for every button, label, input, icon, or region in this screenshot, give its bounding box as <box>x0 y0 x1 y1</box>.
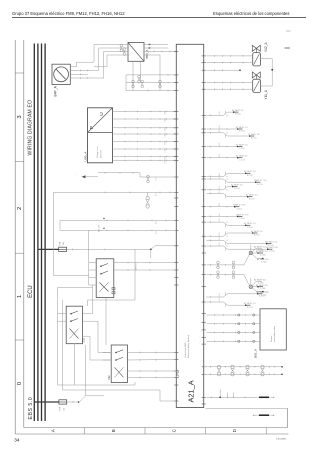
S32 contacts <box>115 352 117 354</box>
svg-text:B-TU4: B-TU4 <box>239 131 244 133</box>
valve feed wire ticks Y12 <box>214 55 216 57</box>
relay drop wires <box>105 298 107 346</box>
stub row y189.8 <box>210 189 212 191</box>
svg-text:AT SA/ST GU: AT SA/ST GU <box>257 291 269 294</box>
scale bar top right <box>285 47 291 49</box>
svg-text:3: 3 <box>17 115 23 118</box>
svg-text:Y11_A: Y11_A <box>264 89 268 99</box>
thick tap wire to fuse F28 <box>38 248 59 250</box>
relay terminal squares <box>112 292 115 294</box>
sensor unit B03_A box <box>260 309 286 350</box>
relay right pin wires <box>114 262 177 264</box>
stub row y222.1 <box>210 221 212 223</box>
stub row y129 <box>210 128 212 130</box>
switch S31 box <box>66 306 82 344</box>
cable screen bar 2 <box>259 414 269 416</box>
splice 1 fan-out <box>252 249 262 252</box>
ECU left edge pins <box>174 51 178 53</box>
splice 2 fan-out <box>252 282 262 286</box>
lower-left interconnect wires <box>58 384 136 386</box>
solenoid valve Y11_A body <box>253 79 261 92</box>
fuse F28 <box>59 247 67 251</box>
svg-text:Control unit, EBS: Control unit, EBS <box>184 342 187 358</box>
svg-text:ECU: ECU <box>28 285 34 298</box>
twisted pair connector 2 <box>232 261 235 264</box>
stub row y146.5 <box>210 146 212 148</box>
twisted pair connector 1 <box>217 261 220 264</box>
connector tick columns between U0B and ECU <box>124 111 126 113</box>
svg-text:Voltage conv.: Voltage conv. <box>96 146 99 158</box>
svg-text:B-TU4: B-TU4 <box>251 138 256 140</box>
stub row y157.7 <box>210 157 212 159</box>
gauge B4P_A needle <box>56 69 65 79</box>
stub row y236.2 <box>210 235 212 237</box>
switch S32 box <box>111 345 127 383</box>
frame left outer border <box>14 40 16 434</box>
splice node 2 (circle-X) <box>244 275 250 286</box>
U0B_A divider <box>88 132 113 134</box>
S31 left wires <box>58 313 67 315</box>
valve feed wires Y11 <box>207 82 253 84</box>
hourglass connectors below B50 <box>132 80 135 83</box>
drop from B50 wire <box>159 55 161 91</box>
bottom ruler separator 1 <box>84 428 86 435</box>
bottom wire row y397.3 <box>207 396 258 398</box>
svg-text:B-TU4: B-TU4 <box>247 307 252 309</box>
gauge B4P_A box <box>52 64 70 84</box>
B50 right pin wires <box>144 44 168 46</box>
stub row y297 <box>210 296 212 298</box>
U0B_A bottom arrow <box>82 175 86 178</box>
relay coil diagonal <box>100 283 109 292</box>
svg-text:2: 2 <box>17 207 23 210</box>
ruler tick y=161.5 <box>15 161 24 163</box>
svg-text:2-TU4: 2-TU4 <box>260 288 265 290</box>
svg-text:AT SA/ST GU: AT SA/ST GU <box>236 126 248 129</box>
S31 contacts <box>70 313 72 315</box>
stub above splice 2 <box>250 280 252 285</box>
stub row y216.5 <box>210 216 212 218</box>
svg-text:0.75: 0.75 <box>219 298 221 301</box>
svg-text:7/2B S:4: 7/2B S:4 <box>136 262 138 271</box>
ECU right edge pins <box>202 55 206 57</box>
relay box <box>96 259 114 298</box>
riser from y397 row <box>219 391 221 397</box>
ruler tick y=253.2 <box>15 252 24 254</box>
junction dots on F28 wire <box>72 249 74 251</box>
wire row y177 to ECU <box>140 176 176 178</box>
splice node 1 (circle-X) <box>244 255 250 265</box>
svg-text:Grupo 37 Esquema eléctrico FM9: Grupo 37 Esquema eléctrico FM9, FM12, FH… <box>12 11 125 16</box>
svg-text:0.75: 0.75 <box>219 293 221 296</box>
svg-text:C-VU4: C-VU4 <box>239 218 245 220</box>
stub row y179 <box>210 178 212 180</box>
svg-text:EBS 5.0: EBS 5.0 <box>28 397 34 420</box>
svg-text:(Electronic Brake System): (Electronic Brake System) <box>187 335 190 358</box>
frame left ruler inner line <box>23 40 25 428</box>
wires below B50 to ECU pins <box>132 61 134 90</box>
svg-text:B03_A: B03_A <box>254 349 258 358</box>
connector pair x147.6 y198-206.5 <box>146 196 149 199</box>
B03 feed wires <box>207 314 261 316</box>
vertical wire x135 with label <box>134 249 136 300</box>
bottom chain wires <box>204 366 281 368</box>
svg-text:SAME ST XUY: SAME ST XUY <box>236 213 249 216</box>
bottom ruler separator 2 <box>144 428 146 435</box>
gauge wire row y78 <box>77 77 104 79</box>
svg-text:AT SA/ST GU: AT SA/ST GU <box>256 284 268 287</box>
stub row y132.8 <box>210 132 212 134</box>
ECU A21_A box <box>176 44 203 407</box>
svg-text:0.75: 0.75 <box>219 190 221 193</box>
stub row y206.7 <box>210 206 212 208</box>
relay contacts <box>100 265 102 267</box>
B50 feed wires from left <box>94 44 120 46</box>
mid ticks on twisted pair rows <box>225 264 227 266</box>
wire under relay to S32 <box>53 274 88 276</box>
svg-text:Y12_A: Y12_A <box>264 42 268 52</box>
frame bottom ruler top line <box>24 427 288 429</box>
connector pair on riser x148 <box>147 175 150 178</box>
svg-text:Sensor,: Sensor, <box>271 335 273 342</box>
svg-text:BB 139: BB 139 <box>99 224 101 231</box>
wire row y220.5 <box>60 220 176 222</box>
frame top right tick <box>286 30 291 32</box>
twisted pair connector 3 <box>217 271 220 274</box>
header rule <box>12 17 306 19</box>
svg-text:C-TU4: C-TU4 <box>269 251 275 253</box>
solenoid valve Y12_A body <box>253 53 261 66</box>
S32 right wires to ECU <box>128 352 177 354</box>
sensor B50_A box <box>128 43 144 62</box>
svg-text:Esquemas eléctricos de los com: Esquemas eléctricos de los componentes <box>213 11 289 16</box>
svg-text:1.0SB: 1.0SB <box>165 141 167 145</box>
vertical riser from F48 run <box>85 345 87 396</box>
S31 right wires <box>83 313 93 315</box>
left drop wires to relay area <box>59 221 61 231</box>
svg-text:AT SA/ST GU: AT SA/ST GU <box>246 194 258 197</box>
bus wire 4 <box>44 44 46 422</box>
cable screen bar 1 <box>259 396 269 398</box>
svg-text:P: P <box>89 126 95 129</box>
gauge wire row y74.3 <box>77 73 88 75</box>
sensor B50_A diagonal <box>128 43 144 62</box>
bottom chain ticks <box>209 366 211 368</box>
valve feed wire ticks Y11 <box>214 82 216 84</box>
stub row y302 <box>210 301 212 303</box>
svg-text:AT SA/ST GU: AT SA/ST GU <box>244 222 256 225</box>
svg-text:0: 0 <box>17 382 23 385</box>
svg-text:0.75: 0.75 <box>156 221 158 224</box>
bus wire 3 <box>41 44 43 422</box>
svg-text:AT SA/ST GU: AT SA/ST GU <box>244 170 256 173</box>
svg-text:A21_A: A21_A <box>187 380 196 402</box>
valve feed wires Y12 <box>207 55 253 57</box>
wire from S31 bottom down <box>74 344 76 385</box>
svg-text:AT SA/ST GU: AT SA/ST GU <box>244 302 256 305</box>
thick tap wire to fuse F48 <box>34 401 59 403</box>
bottom long wire to frame corner <box>205 407 287 409</box>
bus wire 2 <box>37 44 39 422</box>
valve feed wire row y70.2 <box>207 69 241 71</box>
svg-text:combination valve: combination valve <box>273 325 276 342</box>
solenoid valve Y12_A bowtie <box>252 45 260 51</box>
svg-text:1.0SB: 1.0SB <box>165 159 167 163</box>
wire from F48 with connector <box>67 401 78 403</box>
svg-text:C-VU4: C-VU4 <box>236 208 242 210</box>
branch down from F28 wire <box>150 249 152 258</box>
svg-text:34: 34 <box>14 437 20 442</box>
svg-text:SAME ST TUV: SAME ST TUV <box>254 179 267 182</box>
svg-text:1.0SB: 1.0SB <box>165 148 167 152</box>
S32 left wires <box>103 352 112 354</box>
U0B right pin wires to ECU <box>113 111 177 113</box>
valve common return riser <box>261 58 273 60</box>
svg-text:AT SA/ST GU: AT SA/ST GU <box>251 230 263 233</box>
svg-text:U0B_A: U0B_A <box>83 151 87 162</box>
wire row y230.3 <box>60 229 176 231</box>
svg-text:S-VU4: S-VU4 <box>247 227 253 229</box>
frame right lower border <box>287 408 289 427</box>
svg-text:SAME ST TUV: SAME ST TUV <box>233 204 246 207</box>
svg-text:24V/12V: 24V/12V <box>101 150 103 158</box>
svg-text:B4P_A: B4P_A <box>54 85 58 96</box>
stub row y115.3 <box>210 115 212 117</box>
stub above splice 1 <box>250 247 252 252</box>
svg-text:WIRING DIAGRAM EO: WIRING DIAGRAM EO <box>27 100 33 156</box>
bottom wire row y415.2 <box>253 414 258 416</box>
svg-text:1: 1 <box>17 295 23 298</box>
gauge B4P_A dial circle <box>54 67 69 82</box>
S32 coil diagonal <box>115 367 124 377</box>
connector on F48 wire <box>78 401 80 403</box>
svg-text:2-TU4: 2-TU4 <box>261 261 266 263</box>
svg-text:B: B <box>111 429 116 432</box>
svg-text:S32: S32 <box>107 375 111 380</box>
bus wire 1 <box>33 44 35 422</box>
twisted pair connector 4 <box>232 271 235 274</box>
svg-text:H-TU4: H-TU4 <box>235 114 241 116</box>
wire row y192.4 <box>53 191 176 193</box>
svg-text:U: U <box>99 112 105 116</box>
svg-text:WE SA/LE GU: WE SA/LE GU <box>265 240 278 243</box>
connector column ticks near gauge <box>79 70 81 72</box>
svg-text:NT SA/ST GU: NT SA/ST GU <box>248 133 260 136</box>
bottom chain end arrows <box>281 366 283 368</box>
svg-text:0.75: 0.75 <box>156 231 158 234</box>
ruler tick y=345 <box>15 339 24 341</box>
svg-text:C-TU4: C-TU4 <box>239 148 245 150</box>
wire from F28 to ECU <box>67 246 177 250</box>
solenoid valve Y11_A bowtie <box>252 72 260 78</box>
svg-text:B-TU4: B-TU4 <box>254 235 259 237</box>
stub row y193.5 <box>210 193 212 195</box>
B03 feed wire ticks <box>214 314 216 316</box>
S31 interconnect riser <box>97 321 99 352</box>
svg-text:AT SA/ST GU: AT SA/ST GU <box>232 109 244 112</box>
ECU wires to twisted pairs <box>207 264 245 266</box>
svg-text:B-TU4: B-TU4 <box>257 184 262 186</box>
fuse F48 <box>59 400 67 404</box>
svg-text:A: A <box>51 429 56 432</box>
stub row y176.5 <box>210 176 212 178</box>
svg-text:H-TU4: H-TU4 <box>234 188 240 190</box>
svg-text:S31: S31 <box>81 337 85 342</box>
svg-text:0.75: 0.75 <box>156 177 158 180</box>
svg-text:1.0SB: 1.0SB <box>165 156 167 160</box>
svg-text:AT SA/ST GU: AT SA/ST GU <box>256 250 268 253</box>
arrow marks on B50 right wires <box>149 44 152 46</box>
svg-text:AT SA/ST GU: AT SA/ST GU <box>257 258 269 261</box>
svg-text:AT SA/ST GU: AT SA/ST GU <box>236 155 248 158</box>
connector pair symbols left of B50 <box>120 44 123 47</box>
bottom ruler separator 3 <box>205 428 207 435</box>
frame bottom outer border <box>15 433 288 435</box>
svg-text:B-TU4: B-TU4 <box>249 198 254 200</box>
svg-text:1.0SB: 1.0SB <box>165 127 167 131</box>
power converter U0B_A box <box>88 108 113 163</box>
gauge wire row y70.5 <box>77 70 99 72</box>
diagonal wire up from F48 run <box>79 396 104 402</box>
svg-text:1.0SB: 1.0SB <box>165 133 167 137</box>
ruler tick y=73 <box>15 72 24 74</box>
connector symbol bottom mid <box>176 370 179 373</box>
svg-text:AT SA/ST GU: AT SA/ST GU <box>254 279 266 282</box>
relay left pin wires <box>89 262 97 264</box>
wire row y172.75 <box>98 172 140 174</box>
svg-text:B50_A: B50_A <box>145 49 149 58</box>
B03 feed wire connector circles <box>238 314 240 316</box>
svg-text:2-TU4: 2-TU4 <box>260 255 265 257</box>
svg-text:0.75: 0.75 <box>156 193 158 196</box>
svg-text:AT SA/ST GU: AT SA/ST GU <box>231 183 243 186</box>
svg-text:B-TU4: B-TU4 <box>247 175 252 177</box>
svg-text:T3010866: T3010866 <box>276 438 287 440</box>
ticks on ECU left feed rows <box>167 74 169 76</box>
S31 coil diagonal <box>70 329 79 339</box>
svg-text:NE SA/ST GU: NE SA/ST GU <box>266 246 279 249</box>
svg-text:AT SA/ST GU: AT SA/ST GU <box>254 246 266 249</box>
gauge pin wires <box>70 66 76 68</box>
svg-text:C-TU4: C-TU4 <box>239 159 245 161</box>
gauge wire risers <box>76 62 78 67</box>
svg-text:1.0SB: 1.0SB <box>165 111 167 115</box>
stub row y246 <box>210 245 212 247</box>
B50 left pin wires <box>120 44 129 46</box>
svg-text:2-TU4: 2-TU4 <box>261 294 266 296</box>
svg-text:AT SA/ST GU: AT SA/ST GU <box>236 143 248 146</box>
bottom chain twist symbols <box>217 365 220 368</box>
top-left feed verticals <box>93 45 95 63</box>
bottom ruler separator 4 <box>265 428 267 435</box>
U0B_A diagonal <box>88 108 113 133</box>
arrows on B50 right wires <box>149 44 150 45</box>
stub row y240.4 <box>210 240 212 242</box>
svg-text:1.0SB: 1.0SB <box>165 118 167 122</box>
